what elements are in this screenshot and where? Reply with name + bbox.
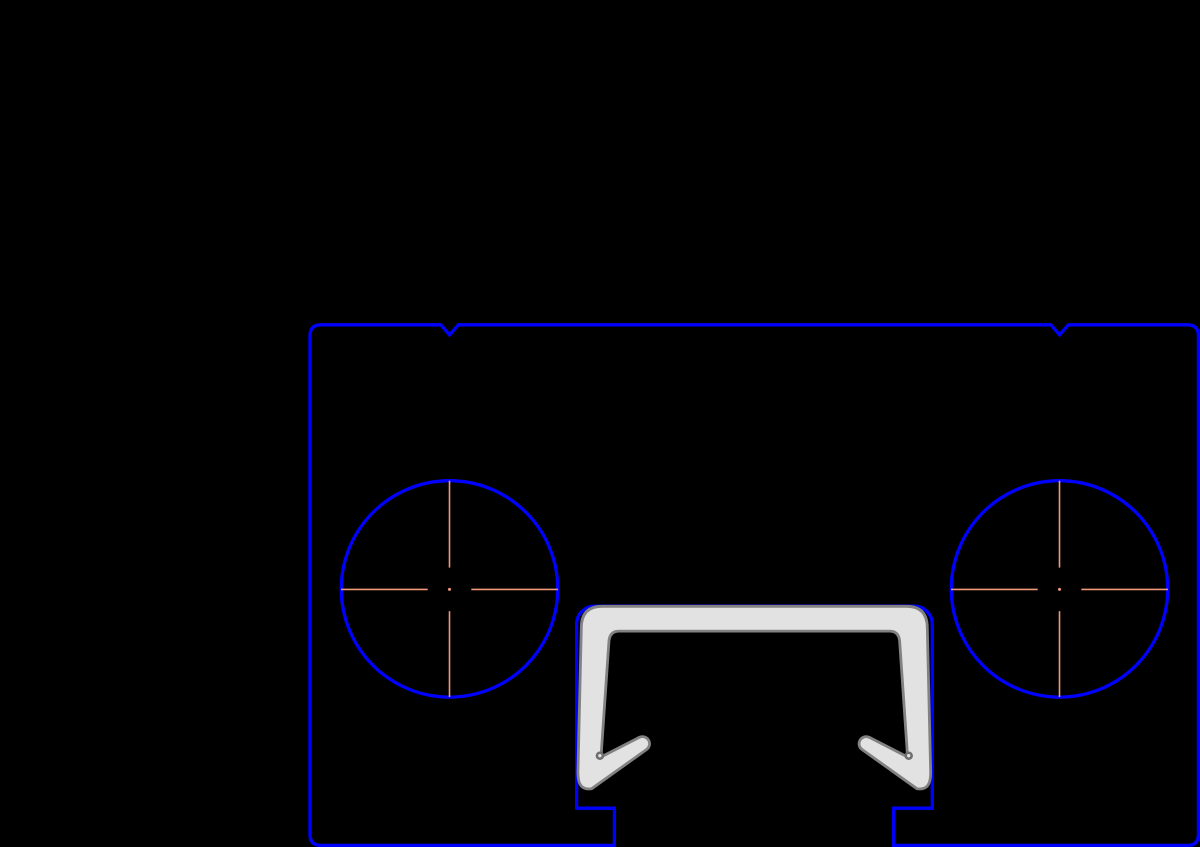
left hole crosshair centerlines <box>341 481 558 697</box>
right mounting hole circle <box>951 481 1167 697</box>
right crosshair center dot <box>1058 588 1061 591</box>
right hole crosshair centerlines <box>951 481 1168 697</box>
right rail pivot hole <box>906 753 912 759</box>
enclosure outline (blue profile with DIN-rail channel and feet) <box>310 325 1198 846</box>
left crosshair center dot <box>448 588 451 591</box>
left rail pivot hole <box>597 753 603 759</box>
left mounting hole circle <box>341 481 557 697</box>
DIN rail (grey top-hat profile) <box>578 606 931 789</box>
